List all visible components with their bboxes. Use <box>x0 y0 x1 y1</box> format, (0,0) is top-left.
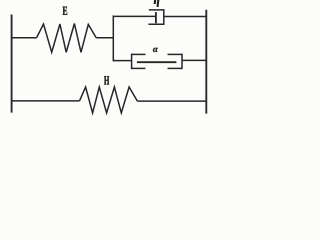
label alpha <box>153 48 158 52</box>
spring E <box>37 24 97 53</box>
label eta <box>154 0 159 6</box>
wire: left plate to spring H <box>11 100 79 102</box>
wire: node to dashpot piston <box>113 15 156 17</box>
node A: left junction bar of parallel branch <box>112 15 114 61</box>
wire: spring E to node <box>96 37 114 39</box>
wire: slider to right plate <box>182 59 206 61</box>
left terminal plate <box>11 15 13 113</box>
wire: spring H to right plate <box>137 100 206 102</box>
friction slider alpha right bracket <box>168 54 183 70</box>
label H <box>104 76 109 84</box>
wire: left plate to spring E <box>11 37 36 39</box>
wire: node to slider left bracket <box>113 60 131 62</box>
right terminal plate <box>205 10 207 114</box>
dashpot eta cylinder <box>148 10 163 24</box>
label E <box>63 7 68 15</box>
friction slider alpha rod <box>137 61 177 63</box>
wire: dashpot to right plate <box>164 16 207 18</box>
friction slider alpha left bracket <box>132 54 146 70</box>
spring H <box>80 87 138 113</box>
dashpot eta piston plate <box>155 12 157 23</box>
